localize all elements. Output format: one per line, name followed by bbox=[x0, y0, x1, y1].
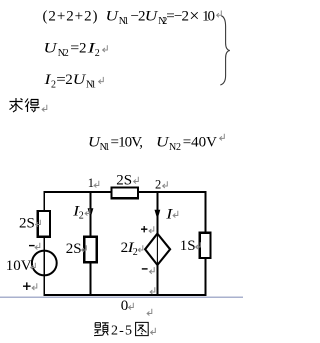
svg-text:−2: −2 bbox=[174, 9, 189, 25]
svg-text:2: 2 bbox=[133, 247, 138, 258]
svg-text:=: = bbox=[70, 40, 79, 56]
node 2 label bbox=[155, 177, 167, 191]
svg-text:2S: 2S bbox=[66, 241, 82, 257]
svg-text:N1: N1 bbox=[119, 16, 129, 27]
svg-text:2: 2 bbox=[79, 40, 87, 56]
label 10V bbox=[6, 258, 36, 274]
svg-text:2: 2 bbox=[95, 48, 100, 59]
caption latin part 2-5 bbox=[111, 324, 155, 339]
svg-text:U: U bbox=[106, 9, 120, 25]
de bbox=[25, 99, 40, 113]
svg-text:(2+2+2): (2+2+2) bbox=[43, 9, 98, 25]
wire: middle branch vertical (x=90.5, node 1) bbox=[90, 191, 92, 296]
svg-text:=40V: =40V bbox=[183, 134, 217, 150]
return mark after qiu de bbox=[42, 105, 47, 112]
light blue horizontal rule across page bbox=[0, 296, 243, 298]
svg-text:0: 0 bbox=[121, 298, 129, 314]
stray return mark above bottom rail bbox=[150, 287, 155, 294]
Chinese text: qiu de (obtained) drawn as strokes bbox=[10, 98, 40, 112]
equation line 1: (2+2+2) U_N1 - 2U_N2 = -2x10 bbox=[43, 5, 222, 27]
svg-text:U: U bbox=[73, 72, 87, 88]
resistor 2S left branch bbox=[38, 211, 50, 237]
svg-text:N1: N1 bbox=[100, 142, 110, 153]
svg-text:2S: 2S bbox=[116, 172, 132, 188]
svg-text:2-5: 2-5 bbox=[111, 324, 132, 339]
resistor 1S right branch bbox=[200, 233, 211, 258]
svg-text:2: 2 bbox=[65, 72, 73, 88]
ti (CJK) bbox=[94, 323, 109, 336]
resistor 2S middle branch bbox=[84, 237, 96, 263]
caption: ti 2-5 tu (Problem 2-5 Figure) bbox=[94, 322, 148, 335]
equation line 3: I_2 = 2 U_N1 bbox=[43, 72, 103, 91]
tu (CJK) bbox=[136, 322, 149, 335]
svg-text:N1: N1 bbox=[86, 80, 96, 91]
right curly brace spanning the three equations bbox=[220, 16, 230, 85]
label 2I2 bbox=[121, 240, 143, 258]
wire: top horizontal from left corner to right corner bbox=[44, 191, 207, 193]
svg-text:N2: N2 bbox=[58, 48, 69, 59]
svg-text:U: U bbox=[145, 9, 159, 25]
qiu bbox=[10, 98, 23, 112]
svg-text:1: 1 bbox=[88, 176, 94, 190]
label 2S (left resistor) bbox=[19, 215, 40, 231]
svg-text:U: U bbox=[156, 134, 170, 150]
node 1 label bbox=[88, 176, 99, 190]
label I bbox=[165, 206, 178, 222]
label 1S bbox=[180, 238, 201, 254]
equation line 2: U_N2 = 2 I_2 bbox=[44, 40, 108, 59]
svg-text:=10V,: =10V, bbox=[111, 134, 144, 150]
svg-text:2: 2 bbox=[79, 211, 84, 222]
current arrow I (dependent source branch, pointing down) bbox=[155, 210, 161, 220]
svg-text:−2: −2 bbox=[131, 9, 146, 25]
svg-text:2: 2 bbox=[155, 177, 161, 191]
stray return mark below node 0 bbox=[147, 309, 152, 316]
svg-text:2: 2 bbox=[51, 80, 56, 91]
resistor 2S top (between node 1 and node 2) bbox=[112, 188, 139, 199]
svg-text:N2: N2 bbox=[169, 142, 181, 153]
svg-text:2S: 2S bbox=[19, 215, 35, 231]
label 2S (middle resistor) bbox=[66, 241, 86, 257]
label I2 bbox=[72, 204, 90, 222]
node 0 label bbox=[121, 298, 134, 314]
wire: bottom horizontal (node 0 rail) bbox=[44, 294, 207, 296]
svg-text:10V: 10V bbox=[6, 258, 32, 274]
svg-text:×: × bbox=[189, 5, 199, 25]
svg-text:U: U bbox=[44, 40, 58, 56]
equation line 4: U_N1=10V, U_N2=40V bbox=[88, 134, 224, 153]
svg-text:10: 10 bbox=[202, 9, 215, 25]
wire: dependent-source branch vertical (x=157.4, node 2) bbox=[156, 191, 158, 296]
current arrow I2 (middle branch, pointing down) bbox=[88, 208, 94, 218]
svg-text:1S: 1S bbox=[180, 238, 196, 254]
wire: right branch vertical (x=205.5) bbox=[205, 191, 207, 296]
label minus of dependent source bbox=[142, 267, 154, 274]
wire: left branch vertical (x=44) bbox=[43, 191, 45, 296]
label plus of dependent source bbox=[141, 226, 154, 233]
dependent source 2I2 (diamond CCVS) bbox=[145, 234, 170, 265]
voltage source 10V (circle) bbox=[32, 251, 57, 276]
label minus of 10V source bbox=[29, 243, 40, 250]
svg-text:I: I bbox=[165, 206, 173, 222]
label 2S (top resistor) bbox=[116, 172, 138, 188]
label plus of 10V source bbox=[23, 282, 37, 290]
